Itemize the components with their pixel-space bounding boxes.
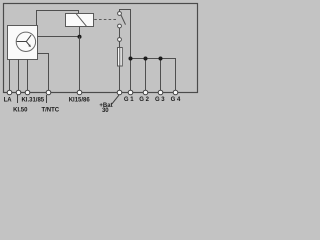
leader line terminal KI.50 [17,95,19,103]
wire switch top contact up and over to bus column [120,10,131,59]
junction A dot [78,35,82,39]
terminal KI.31/85 [25,90,30,95]
terminal KI15/86 [77,90,82,95]
junction dot bus G3 [159,57,163,61]
fuse internal wire [119,48,121,67]
switch blade [121,15,126,25]
svg-text:G 4: G 4 [171,97,181,103]
terminal T/NTC [46,90,51,95]
wire junction A left to timer box [38,36,80,38]
wire timer box to terminal KI.50 [18,60,20,93]
leader line terminal T/NTC [46,95,48,103]
svg-text:T/NTC: T/NTC [41,108,59,114]
timer unit box U1 [8,26,38,60]
svg-text:30: 30 [102,108,109,114]
wire relay coil bottom to junction A [79,27,81,37]
leader line terminal 30 [112,95,119,103]
relay coil diagonal [76,14,86,26]
wire connector to fuse and through to terminal 30 [119,41,121,92]
timer arrow head [28,44,31,47]
terminal G3 [158,90,163,95]
wire switch bottom contact to connector [119,28,121,38]
timer hands with arrow [17,35,32,45]
switch fixed contact top [118,12,122,16]
svg-text:KI.31/85: KI.31/85 [21,98,44,104]
terminal 30 battery [117,90,122,95]
wire timer box to terminal KI.31/85 [27,60,29,93]
wire feed from timer box top to relay coil top [37,11,79,27]
svg-text:LA: LA [4,98,13,104]
timer symbol circle [16,32,35,51]
wire timer box to T/NTC terminal [38,54,49,93]
svg-text:KI15/86: KI15/86 [69,98,91,104]
wire bus down to terminal G3 [160,59,162,93]
wire bus down to terminal G2 [145,59,147,93]
svg-text:G 1: G 1 [124,97,134,103]
wire junction A down to terminal KI15/86 [79,37,81,93]
terminal KI.50 [16,90,21,95]
glow plug bus wire [131,59,176,93]
svg-text:KI.50: KI.50 [13,108,28,114]
terminal G1 [128,90,133,95]
terminal LA [7,90,12,95]
junction dot bus G1 [129,57,133,61]
dashed mechanical link relay to switch [94,19,117,21]
wire bus down to terminal G1 [130,59,132,93]
switch fixed contact bottom [118,24,122,28]
relay coil K1 box [66,14,94,27]
svg-text:G 3: G 3 [155,97,165,103]
terminal G2 [143,90,148,95]
svg-text:G 2: G 2 [139,97,149,103]
outer box (control unit boundary) [4,4,198,93]
terminal G4 [173,90,178,95]
wire timer box to terminal LA [9,60,11,93]
fuse F1 [118,48,123,67]
junction dot bus G2 [144,57,148,61]
connector circle [118,38,122,42]
